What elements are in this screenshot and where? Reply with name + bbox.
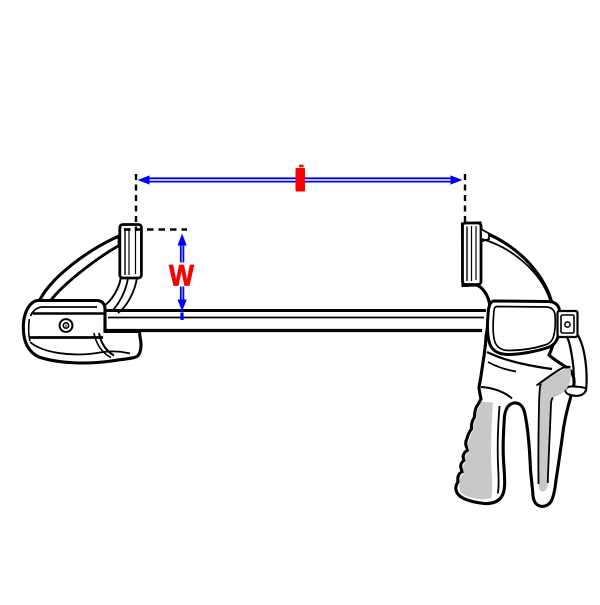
grip gray pad [538, 368, 571, 491]
label l (red, center of L line) [296, 165, 306, 192]
collar curve 2 [488, 362, 516, 372]
pad-to-foot joint curves [104, 277, 121, 306]
left jaw pad [120, 225, 142, 279]
head inner curve [482, 239, 550, 300]
side box [558, 311, 578, 337]
left arm band [37, 236, 119, 307]
release lever [566, 336, 587, 396]
window recess inner [493, 307, 555, 351]
pad top flap [481, 229, 489, 242]
right jaw pad [463, 223, 482, 285]
dimension line L (horizontal, blue) [138, 175, 463, 184]
bar [100, 311, 486, 331]
lever foot [565, 386, 586, 395]
dimension line W (vertical, blue) [178, 234, 187, 321]
extension line right [464, 174, 466, 223]
svg-text:W: W [169, 260, 195, 293]
rivet [60, 319, 73, 332]
left foot [23, 301, 141, 363]
extension line left [135, 174, 137, 231]
trigger gray grip [459, 402, 493, 500]
collar curve 1 [487, 352, 552, 369]
extension line horizontal [124, 228, 187, 230]
window recess outer [488, 301, 560, 355]
trigger housing line [481, 387, 512, 399]
foot right edge arcs below bar [99, 333, 114, 356]
right body silhouette [456, 223, 574, 506]
